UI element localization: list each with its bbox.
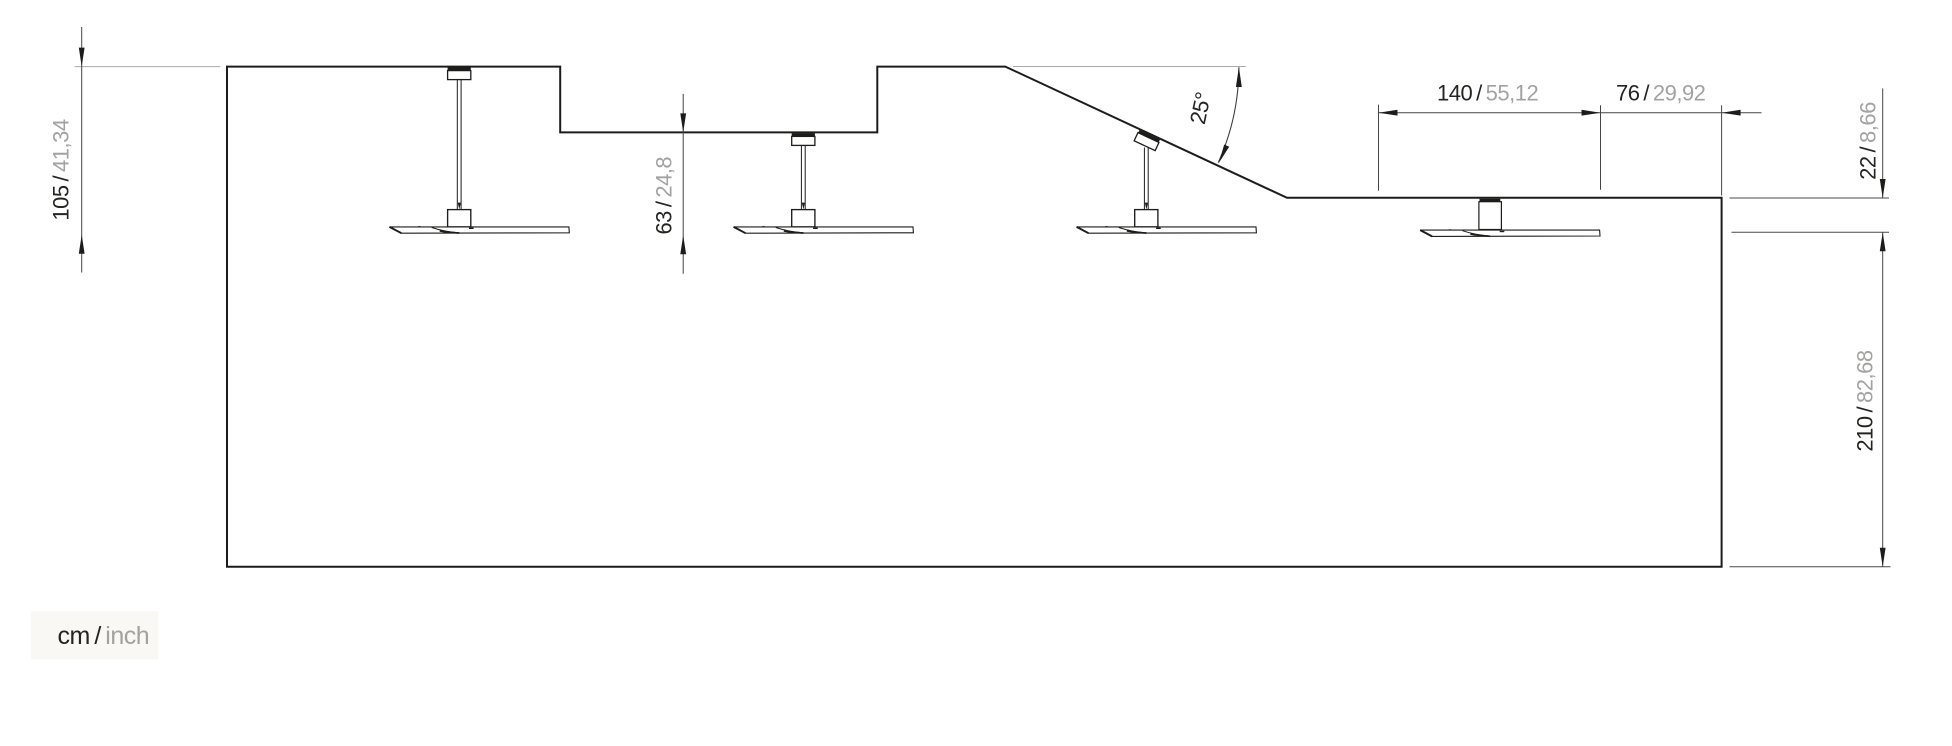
fan F1 downrod xyxy=(456,80,458,210)
arrow down xyxy=(79,48,85,67)
extension line blade level xyxy=(1732,231,1890,233)
dimension 140/55,12 and 76/29,92 xyxy=(1379,80,1762,195)
room outline xyxy=(227,67,1722,567)
extension line floor xyxy=(1730,566,1891,568)
dimension line 22 xyxy=(1882,88,1884,198)
arrow up xyxy=(680,235,686,254)
fan F4 (low profile) xyxy=(1420,199,1600,237)
fan F2 motor xyxy=(792,210,815,227)
fan F3 tilted canopy xyxy=(1134,130,1160,151)
arrow down 22 xyxy=(1880,179,1886,198)
fan F4 body xyxy=(1479,202,1502,230)
units label background xyxy=(31,611,159,659)
extension line right xyxy=(1721,105,1723,195)
fan F3 downrod xyxy=(1143,148,1145,210)
dimension 22/8,66 and 210/82,68 xyxy=(1730,88,1891,566)
svg-text:105 / 41,34: 105 / 41,34 xyxy=(49,119,74,220)
arrow left xyxy=(1379,110,1398,116)
extension line mid xyxy=(1600,105,1602,190)
svg-text:63 / 24,8: 63 / 24,8 xyxy=(652,157,677,235)
arc arrow top xyxy=(1236,67,1242,87)
dimension line 140 xyxy=(1379,112,1722,114)
extension line left xyxy=(1378,105,1380,191)
dimension line 105 xyxy=(81,27,83,273)
fan F3 blades xyxy=(1077,227,1257,234)
fan F3 (sloped ceiling) xyxy=(1077,130,1257,233)
fan F2 downrod xyxy=(800,145,802,209)
fan F4 ceiling plate xyxy=(1480,199,1501,202)
dimension 63/24,8 xyxy=(652,94,687,274)
fan F4 blades xyxy=(1420,230,1600,237)
fan F2 canopy xyxy=(792,136,815,145)
fan F1 blades xyxy=(390,227,570,234)
angle 25 degrees xyxy=(1013,67,1246,163)
angle arc xyxy=(1218,67,1239,162)
svg-text:210 / 82,68: 210 / 82,68 xyxy=(1853,350,1878,451)
horizontal reference line xyxy=(1013,66,1246,68)
arrow down xyxy=(680,113,686,132)
dimension line 63 xyxy=(682,94,684,274)
arrow down 210 xyxy=(1880,548,1886,567)
external tail xyxy=(1722,112,1762,114)
dimension 105/41,34 xyxy=(49,27,221,273)
svg-text:76 / 29,92: 76 / 29,92 xyxy=(1616,80,1706,105)
arrow up xyxy=(79,235,85,254)
svg-text:22 / 8,66: 22 / 8,66 xyxy=(1856,102,1881,180)
fan F1 motor xyxy=(448,210,471,227)
fan F1 xyxy=(390,67,570,233)
fan F1 ceiling plate xyxy=(448,67,471,70)
arrow right xyxy=(1582,110,1601,116)
svg-text:140 / 55,12: 140 / 55,12 xyxy=(1437,80,1538,105)
arrow external left xyxy=(1722,110,1741,116)
fan F2 ceiling plate xyxy=(792,133,815,136)
extension line ceiling left xyxy=(75,66,221,68)
extension line ceiling right xyxy=(1730,197,1890,199)
fan F2 blades xyxy=(734,227,914,234)
arrow up 210 xyxy=(1880,232,1886,251)
arc arrow bottom xyxy=(1219,145,1229,163)
fan F3 motor xyxy=(1135,210,1158,227)
fan F1 canopy xyxy=(448,71,471,80)
fan F2 xyxy=(734,133,914,233)
svg-text:cm / inch: cm / inch xyxy=(58,622,150,650)
dimension line 210 xyxy=(1882,232,1884,567)
